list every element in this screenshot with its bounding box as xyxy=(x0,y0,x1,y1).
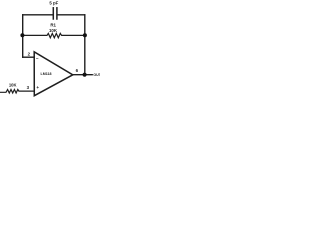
svg-text:10K: 10K xyxy=(9,82,17,87)
svg-text:5 pF: 5 pF xyxy=(49,1,58,6)
op-amp U1 LM118 triangle xyxy=(34,52,73,96)
svg-text:3: 3 xyxy=(27,85,30,90)
node junction dot (summing node, inverting input) xyxy=(20,33,24,37)
wire top right horizontal (capacitor to right corner) xyxy=(57,14,85,16)
wire non-inverting input with 10K resistor zigzag xyxy=(0,90,34,94)
wire output xyxy=(73,74,92,76)
capacitor C1 5 pF plates xyxy=(52,8,54,19)
wire inverting input horizontal xyxy=(23,56,35,58)
wire right vertical (feedback) xyxy=(84,15,86,75)
node junction dot (output) xyxy=(83,73,87,77)
svg-text:+: + xyxy=(36,85,39,90)
svg-text:LM118: LM118 xyxy=(41,72,52,76)
svg-text:10K: 10K xyxy=(49,28,58,33)
svg-text:−: − xyxy=(36,56,39,61)
svg-text:R1: R1 xyxy=(50,22,56,27)
resistor R1 10K zigzag xyxy=(22,33,85,37)
wire left vertical (top corner down to inverting branch corner) xyxy=(22,15,24,57)
svg-text:OUT: OUT xyxy=(93,73,100,77)
svg-text:2: 2 xyxy=(28,51,31,56)
wire top left horizontal (corner to capacitor) xyxy=(23,14,53,16)
svg-text:6: 6 xyxy=(76,68,79,73)
node junction dot (feedback / R1 join) xyxy=(83,33,87,37)
